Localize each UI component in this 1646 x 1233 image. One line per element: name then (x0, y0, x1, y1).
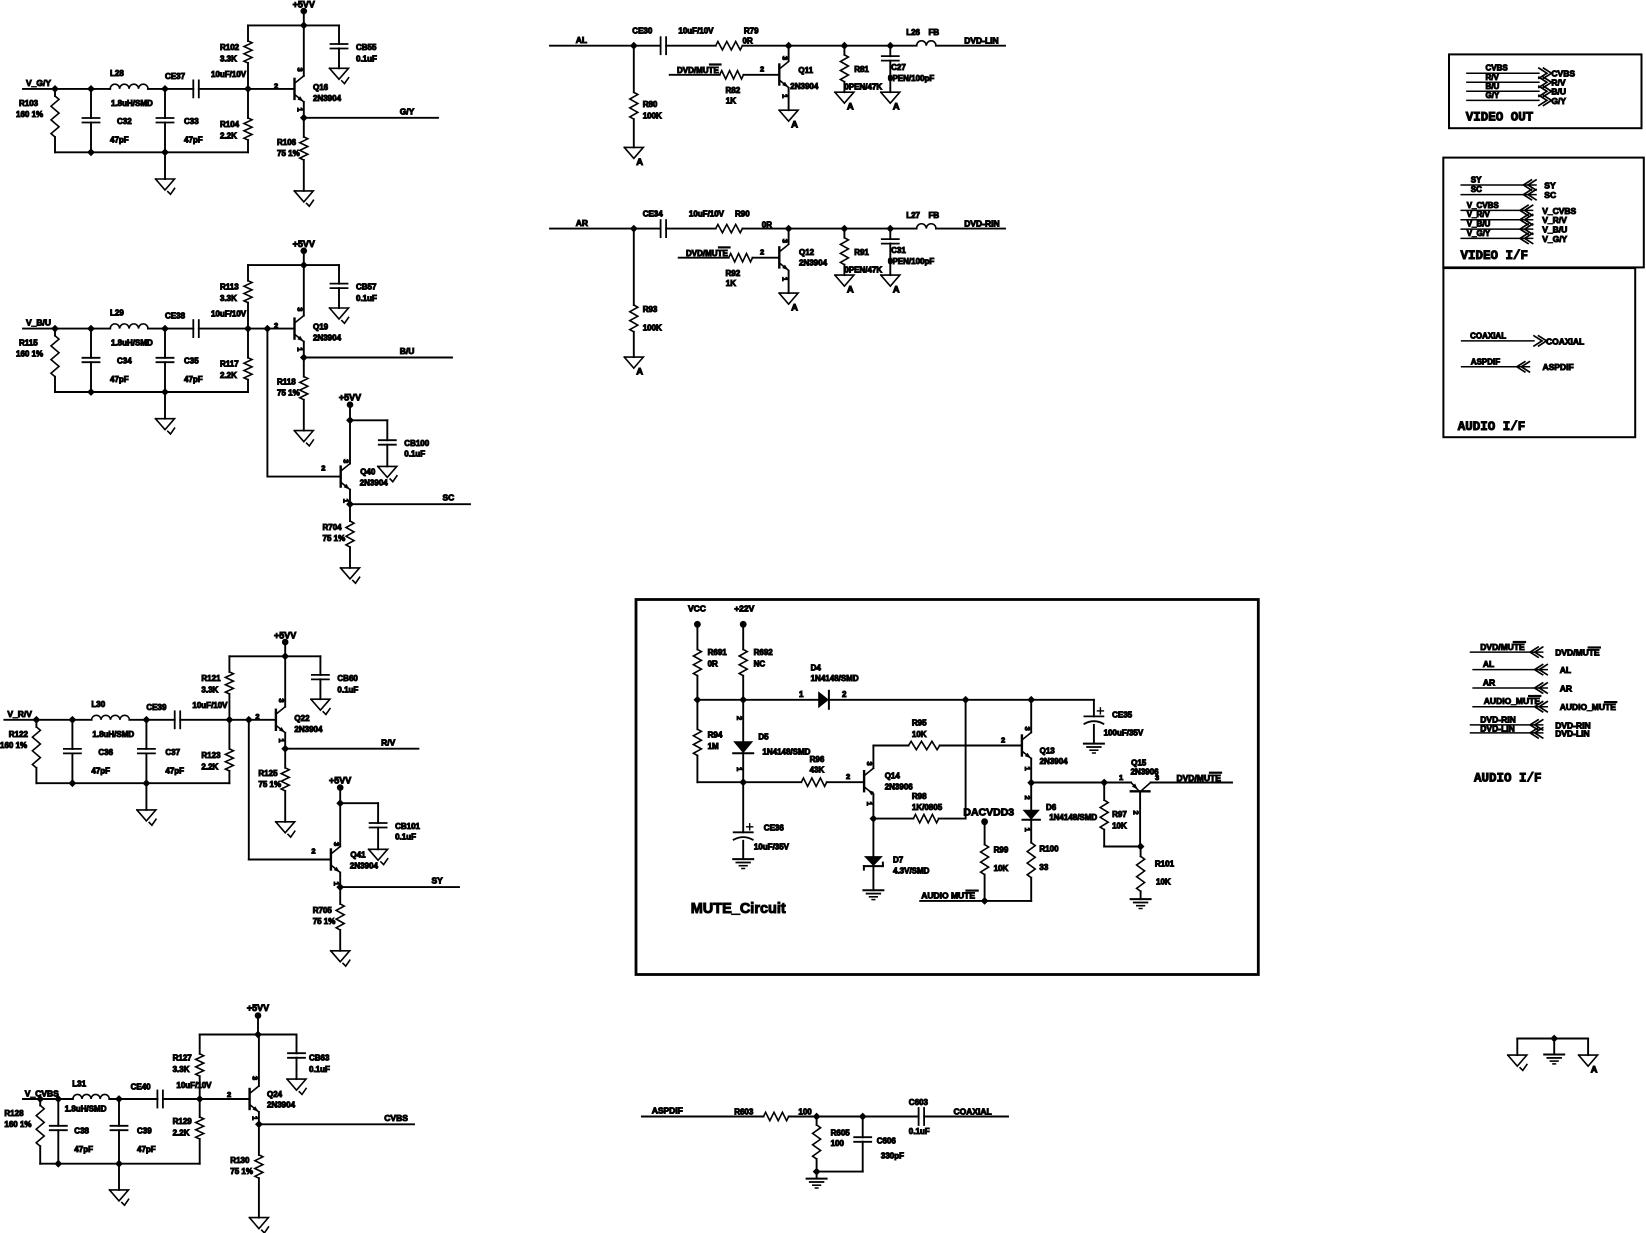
svg-text:3.3K: 3.3K (201, 685, 218, 694)
svg-text:330pF: 330pF (881, 1152, 904, 1161)
svg-text:R79: R79 (744, 27, 759, 36)
svg-text:0.1uF: 0.1uF (337, 685, 358, 694)
svg-text:1N4148/SMD: 1N4148/SMD (762, 748, 810, 757)
svg-text:0PEN/47K: 0PEN/47K (844, 83, 882, 92)
svg-text:R704: R704 (323, 523, 343, 532)
svg-text:ASPDIF: ASPDIF (1543, 362, 1574, 372)
svg-text:0.1uF: 0.1uF (356, 294, 377, 303)
svg-text:2: 2 (760, 247, 764, 256)
svg-text:CB57: CB57 (356, 283, 377, 292)
svg-text:3: 3 (1155, 773, 1159, 782)
svg-text:160 1%: 160 1% (0, 741, 27, 750)
svg-text:R91: R91 (854, 248, 869, 257)
svg-text:0.1uF: 0.1uF (404, 450, 425, 459)
svg-text:R90: R90 (735, 210, 750, 219)
svg-text:1: 1 (342, 499, 351, 503)
svg-text:2: 2 (1023, 796, 1032, 800)
svg-text:43K: 43K (810, 766, 825, 775)
svg-text:AR: AR (1560, 683, 1572, 693)
svg-text:10uF/35V: 10uF/35V (754, 843, 790, 852)
svg-text:Q40: Q40 (360, 468, 376, 477)
svg-text:C37: C37 (165, 748, 180, 757)
svg-text:2N3904: 2N3904 (294, 725, 323, 734)
svg-text:R103: R103 (19, 99, 39, 108)
svg-text:2: 2 (1132, 811, 1141, 815)
svg-text:AUDIO_MUTE: AUDIO_MUTE (1484, 696, 1541, 706)
svg-text:A: A (847, 102, 854, 113)
svg-text:R94: R94 (708, 731, 723, 740)
svg-text:160 1%: 160 1% (16, 350, 43, 359)
svg-text:FB: FB (929, 28, 940, 37)
svg-text:Q22: Q22 (294, 714, 310, 723)
svg-text:+5VV: +5VV (274, 630, 296, 640)
svg-text:AL: AL (1560, 665, 1571, 675)
svg-text:R97: R97 (1112, 810, 1127, 819)
svg-text:47pF: 47pF (91, 766, 110, 775)
svg-text:A: A (791, 303, 798, 314)
svg-text:10K: 10K (912, 730, 927, 739)
svg-text:D6: D6 (1046, 803, 1057, 812)
svg-text:C27: C27 (891, 63, 906, 72)
svg-text:L28: L28 (110, 69, 124, 78)
svg-text:1: 1 (1023, 828, 1032, 832)
svg-text:2: 2 (255, 712, 259, 721)
svg-text:0R: 0R (743, 37, 753, 46)
svg-text:3.3K: 3.3K (220, 55, 237, 64)
svg-text:1.8uH/SMD: 1.8uH/SMD (92, 730, 134, 739)
svg-text:R121: R121 (201, 674, 221, 683)
svg-text:ASPDIF: ASPDIF (1471, 357, 1500, 366)
svg-text:Q16: Q16 (313, 83, 329, 92)
svg-text:CVBS: CVBS (384, 1113, 408, 1123)
svg-text:3.3K: 3.3K (220, 294, 237, 303)
svg-text:D5: D5 (758, 733, 769, 742)
svg-text:AUDIO I/F: AUDIO I/F (1474, 772, 1542, 786)
svg-text:CE30: CE30 (632, 27, 653, 36)
svg-text:10K: 10K (994, 864, 1009, 873)
svg-text:VCC: VCC (688, 604, 706, 614)
svg-text:75 1%: 75 1% (323, 534, 346, 543)
svg-text:VIDEO OUT: VIDEO OUT (1466, 111, 1534, 125)
svg-text:R80: R80 (643, 100, 658, 109)
svg-text:R125: R125 (258, 769, 278, 778)
svg-text:0.1uF: 0.1uF (909, 1127, 930, 1136)
svg-text:V_R/V: V_R/V (7, 709, 32, 719)
svg-text:SY: SY (1544, 180, 1556, 190)
svg-text:SY: SY (432, 876, 444, 886)
svg-text:R113: R113 (220, 283, 239, 292)
svg-text:V_G/Y: V_G/Y (1542, 234, 1567, 244)
svg-text:75 1%: 75 1% (313, 917, 336, 926)
svg-text:CE35: CE35 (1112, 711, 1133, 720)
svg-text:L31: L31 (72, 1080, 86, 1089)
svg-text:2: 2 (735, 716, 744, 720)
svg-text:Q19: Q19 (313, 323, 329, 332)
svg-text:+22V: +22V (734, 604, 754, 614)
svg-text:Q24: Q24 (267, 1090, 283, 1099)
svg-text:CE36: CE36 (764, 824, 785, 833)
svg-text:SC: SC (1544, 190, 1556, 200)
svg-text:L29: L29 (110, 309, 124, 318)
svg-text:L26: L26 (906, 28, 920, 37)
svg-text:3: 3 (277, 698, 286, 702)
svg-text:Q11: Q11 (798, 66, 813, 75)
svg-text:3.3K: 3.3K (173, 1065, 190, 1074)
svg-text:COAXIAL: COAXIAL (1470, 331, 1506, 340)
svg-text:1: 1 (1023, 767, 1032, 771)
svg-text:V_B/U: V_B/U (26, 318, 51, 328)
svg-text:33: 33 (1039, 863, 1048, 872)
svg-text:R93: R93 (643, 305, 658, 314)
svg-text:47pF: 47pF (184, 136, 203, 145)
svg-text:MUTE_Circuit: MUTE_Circuit (691, 901, 786, 917)
svg-text:SC: SC (443, 493, 455, 503)
svg-text:1K: 1K (726, 279, 736, 288)
svg-text:A: A (791, 120, 798, 131)
svg-text:A: A (636, 157, 643, 168)
svg-text:0PEN/47K: 0PEN/47K (844, 265, 882, 274)
svg-text:CVBS: CVBS (1486, 64, 1509, 73)
svg-text:R82: R82 (726, 86, 741, 95)
svg-text:1: 1 (780, 94, 789, 98)
svg-text:+5VV: +5VV (339, 392, 361, 402)
svg-text:R691: R691 (708, 648, 728, 657)
svg-text:2: 2 (846, 772, 850, 781)
svg-text:0R: 0R (762, 220, 772, 229)
svg-text:A: A (636, 367, 643, 378)
svg-text:R128: R128 (4, 1109, 24, 1118)
svg-text:L27: L27 (906, 211, 920, 220)
svg-text:R115: R115 (19, 339, 38, 348)
svg-text:3: 3 (296, 307, 305, 311)
svg-text:100: 100 (831, 1139, 845, 1148)
svg-text:1N4148/SMD: 1N4148/SMD (811, 674, 859, 683)
svg-text:0PEN/100pF: 0PEN/100pF (888, 74, 934, 83)
svg-text:DVD/MUTE: DVD/MUTE (1177, 773, 1222, 783)
svg-text:C31: C31 (891, 246, 906, 255)
svg-text:B/U: B/U (1486, 82, 1500, 91)
svg-text:2: 2 (1001, 736, 1005, 745)
svg-text:47pF: 47pF (74, 1145, 93, 1154)
svg-text:V_CVBS: V_CVBS (25, 1089, 59, 1099)
svg-text:2: 2 (274, 321, 278, 330)
svg-text:3: 3 (342, 459, 351, 463)
svg-text:1: 1 (780, 277, 789, 281)
svg-text:CB55: CB55 (356, 43, 377, 52)
svg-text:B/U: B/U (400, 346, 415, 356)
svg-text:10uF/10V: 10uF/10V (176, 1081, 212, 1090)
svg-text:A: A (893, 102, 900, 113)
svg-text:C34: C34 (117, 357, 132, 366)
svg-text:R123: R123 (201, 751, 221, 760)
svg-text:R/V: R/V (381, 737, 396, 747)
svg-text:2N3904: 2N3904 (313, 334, 342, 343)
svg-text:CB100: CB100 (404, 439, 429, 448)
svg-text:1: 1 (296, 347, 305, 351)
svg-text:C35: C35 (184, 357, 199, 366)
svg-text:Q12: Q12 (799, 248, 815, 257)
svg-text:R101: R101 (1155, 860, 1175, 869)
svg-text:DACVDD3: DACVDD3 (963, 807, 1014, 819)
svg-text:V_G/Y: V_G/Y (26, 78, 51, 88)
svg-text:R605: R605 (831, 1129, 851, 1138)
svg-text:R106: R106 (277, 138, 297, 147)
svg-text:1M: 1M (708, 742, 719, 751)
svg-text:Q15: Q15 (1131, 759, 1147, 768)
svg-text:CE39: CE39 (146, 703, 167, 712)
svg-text:2: 2 (842, 690, 847, 699)
svg-text:R692: R692 (754, 648, 774, 657)
svg-text:D7: D7 (893, 856, 904, 865)
svg-text:A: A (1591, 1065, 1598, 1076)
svg-text:47pF: 47pF (137, 1145, 156, 1154)
svg-text:CB60: CB60 (337, 674, 358, 683)
svg-text:2N3904: 2N3904 (799, 258, 828, 267)
svg-text:47pF: 47pF (165, 766, 184, 775)
svg-text:R127: R127 (173, 1054, 193, 1063)
svg-text:R/V: R/V (1486, 73, 1500, 82)
svg-text:C32: C32 (117, 117, 132, 126)
svg-text:2: 2 (321, 464, 325, 473)
svg-text:R122: R122 (9, 730, 29, 739)
svg-text:G/Y: G/Y (400, 107, 415, 117)
svg-text:ASPDIF: ASPDIF (652, 1106, 683, 1116)
svg-text:10uF/10V: 10uF/10V (689, 210, 725, 219)
svg-text:2: 2 (760, 65, 764, 74)
svg-text:100uF/35V: 100uF/35V (1104, 729, 1144, 738)
svg-text:1K/0805: 1K/0805 (912, 803, 943, 812)
svg-text:DVD-LIN: DVD-LIN (964, 36, 998, 46)
svg-text:AUDIO_MUTE: AUDIO_MUTE (1560, 702, 1617, 712)
svg-text:C36: C36 (98, 748, 113, 757)
svg-text:C39: C39 (137, 1127, 152, 1136)
svg-text:10K: 10K (1112, 822, 1127, 831)
svg-text:3: 3 (332, 842, 341, 846)
svg-text:A: A (847, 285, 854, 296)
svg-text:0PEN/100pF: 0PEN/100pF (888, 257, 934, 266)
svg-text:G/Y: G/Y (1551, 96, 1566, 106)
svg-text:CE38: CE38 (165, 312, 186, 321)
svg-text:R98: R98 (912, 792, 927, 801)
svg-text:2N3904: 2N3904 (267, 1101, 296, 1110)
svg-text:47pF: 47pF (110, 136, 129, 145)
svg-text:2N3904: 2N3904 (313, 94, 342, 103)
svg-text:+5VV: +5VV (329, 775, 351, 785)
svg-text:1.8uH/SMD: 1.8uH/SMD (65, 1105, 107, 1114)
svg-text:DVD/MUTE: DVD/MUTE (677, 66, 719, 75)
svg-text:DVD-LIN: DVD-LIN (1480, 724, 1514, 734)
svg-text:G/Y: G/Y (1486, 91, 1500, 100)
svg-text:10uF/10V: 10uF/10V (678, 27, 714, 36)
svg-text:DVD/MUTE: DVD/MUTE (686, 249, 728, 258)
svg-text:4.3V/SMD: 4.3V/SMD (893, 867, 930, 876)
svg-text:2.2K: 2.2K (173, 1129, 190, 1138)
svg-text:AL: AL (576, 35, 587, 45)
svg-text:75 1%: 75 1% (230, 1167, 253, 1176)
svg-text:R102: R102 (220, 43, 240, 52)
svg-text:1.8uH/SMD: 1.8uH/SMD (111, 339, 153, 348)
svg-text:+5VV: +5VV (247, 1003, 269, 1013)
svg-text:2.2K: 2.2K (201, 762, 218, 771)
svg-text:V_G/Y: V_G/Y (1467, 229, 1491, 238)
svg-text:2N3904: 2N3904 (360, 479, 389, 488)
svg-text:R118: R118 (277, 378, 296, 387)
svg-text:10uF/10V: 10uF/10V (211, 310, 247, 319)
svg-text:Q13: Q13 (1040, 747, 1056, 756)
svg-text:FB: FB (929, 211, 940, 220)
svg-text:+5VV: +5VV (293, 239, 315, 249)
svg-text:AL: AL (1483, 659, 1494, 669)
svg-text:R92: R92 (726, 269, 741, 278)
svg-text:SY: SY (1471, 176, 1482, 185)
svg-text:1: 1 (865, 802, 874, 806)
svg-text:3: 3 (251, 1076, 260, 1080)
svg-text:2.2K: 2.2K (220, 132, 237, 141)
svg-text:R99: R99 (994, 846, 1009, 855)
svg-text:NC: NC (754, 660, 766, 669)
svg-text:DVD-LIN: DVD-LIN (1555, 728, 1589, 738)
svg-text:R603: R603 (734, 1108, 754, 1117)
svg-text:R130: R130 (230, 1156, 250, 1165)
svg-text:Q14: Q14 (885, 772, 901, 781)
svg-text:100: 100 (798, 1108, 812, 1117)
svg-text:1: 1 (799, 690, 804, 699)
svg-text:R104: R104 (220, 120, 240, 129)
svg-text:VIDEO I/F: VIDEO I/F (1461, 249, 1529, 263)
svg-text:COAXIAL: COAXIAL (1546, 336, 1584, 346)
svg-text:R100: R100 (1039, 845, 1059, 854)
svg-text:Q41: Q41 (350, 851, 366, 860)
svg-text:R95: R95 (912, 719, 927, 728)
svg-text:1K: 1K (726, 96, 736, 105)
svg-text:2N3906: 2N3906 (885, 783, 914, 792)
svg-text:SC: SC (1471, 185, 1482, 194)
svg-text:D4: D4 (811, 664, 822, 673)
svg-text:+5VV: +5VV (293, 0, 315, 9)
svg-text:R117: R117 (220, 360, 239, 369)
svg-text:3: 3 (780, 239, 789, 243)
svg-text:DVD-RIN: DVD-RIN (964, 218, 999, 228)
svg-text:V_B/U: V_B/U (1467, 220, 1491, 229)
svg-text:2: 2 (311, 847, 315, 856)
svg-text:DVD/MUTE: DVD/MUTE (1480, 642, 1525, 652)
svg-text:0.1uF: 0.1uF (309, 1065, 330, 1074)
svg-text:AUDIO I/F: AUDIO I/F (1458, 420, 1526, 434)
svg-text:R129: R129 (173, 1117, 193, 1126)
svg-text:2N3904: 2N3904 (350, 862, 379, 871)
svg-text:AR: AR (576, 218, 588, 228)
svg-text:1: 1 (1119, 773, 1123, 782)
svg-text:3: 3 (780, 56, 789, 60)
svg-text:1.8uH/SMD: 1.8uH/SMD (111, 99, 153, 108)
svg-text:CB63: CB63 (309, 1054, 330, 1063)
svg-text:R96: R96 (810, 755, 825, 764)
svg-text:R705: R705 (313, 906, 333, 915)
svg-text:0.1uF: 0.1uF (395, 833, 416, 842)
svg-text:V_CVBS: V_CVBS (1467, 201, 1500, 210)
svg-text:75 1%: 75 1% (258, 780, 281, 789)
svg-text:1: 1 (277, 738, 286, 742)
svg-text:2: 2 (274, 81, 278, 90)
svg-text:V_R/V: V_R/V (1467, 210, 1491, 219)
svg-text:CB101: CB101 (395, 822, 420, 831)
svg-text:C38: C38 (74, 1127, 89, 1136)
svg-text:10uF/10V: 10uF/10V (192, 701, 228, 710)
svg-text:75 1%: 75 1% (277, 389, 300, 398)
svg-text:100K: 100K (643, 112, 662, 121)
svg-text:AUDIO MUTE: AUDIO MUTE (921, 891, 975, 901)
svg-text:10uF/10V: 10uF/10V (211, 70, 247, 79)
svg-text:75 1%: 75 1% (277, 149, 300, 158)
svg-text:100K: 100K (643, 324, 662, 333)
svg-text:CE37: CE37 (165, 72, 186, 81)
svg-text:47pF: 47pF (110, 375, 129, 384)
svg-text:CE34: CE34 (643, 210, 664, 219)
svg-text:1: 1 (251, 1116, 260, 1120)
svg-text:2N3904: 2N3904 (1040, 757, 1069, 766)
svg-text:2.2K: 2.2K (220, 371, 237, 380)
svg-text:DVD/MUTE: DVD/MUTE (1555, 648, 1600, 658)
svg-text:0R: 0R (708, 660, 718, 669)
svg-text:3: 3 (296, 68, 305, 72)
svg-text:10K: 10K (1156, 878, 1171, 887)
svg-text:1N4148/SMD: 1N4148/SMD (1049, 813, 1097, 822)
svg-text:1: 1 (735, 767, 744, 771)
svg-text:AR: AR (1483, 678, 1495, 688)
svg-text:C603: C603 (909, 1098, 929, 1107)
svg-text:C606: C606 (877, 1137, 897, 1146)
svg-text:1: 1 (296, 108, 305, 112)
svg-text:0.1uF: 0.1uF (356, 55, 377, 64)
svg-text:CE40: CE40 (131, 1083, 152, 1092)
svg-text:3: 3 (865, 762, 874, 766)
svg-text:3: 3 (1023, 727, 1032, 731)
svg-text:160 1%: 160 1% (4, 1120, 31, 1129)
svg-text:R81: R81 (854, 65, 869, 74)
svg-text:2: 2 (227, 1090, 231, 1099)
svg-text:160 1%: 160 1% (16, 110, 43, 119)
svg-text:L30: L30 (91, 700, 105, 709)
svg-text:47pF: 47pF (184, 375, 203, 384)
svg-text:1: 1 (332, 882, 341, 886)
svg-text:A: A (893, 285, 900, 296)
svg-text:2N3904: 2N3904 (790, 82, 819, 91)
svg-text:COAXIAL: COAXIAL (954, 1107, 992, 1117)
svg-text:C33: C33 (184, 117, 199, 126)
